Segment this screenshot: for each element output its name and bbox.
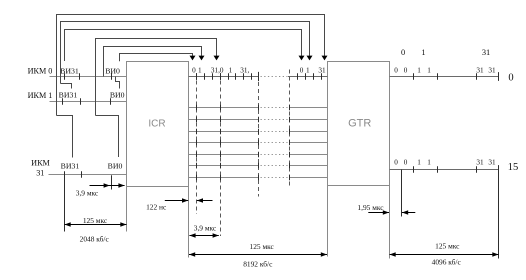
svg-text:125 мкс: 125 мкс [83,216,108,225]
node time slot ticks on PCM 1 [62,98,64,104]
wire ICR right edge extension [188,187,190,258]
wire dim bound half slot output [401,170,403,217]
svg-text:ВИ31: ВИ31 [61,162,80,171]
svg-text:31: 31 [476,159,484,167]
svg-text:2048 кб/с: 2048 кб/с [80,235,110,244]
wire rail D from PCM31 VI0 [96,39,217,116]
wire dashed frame boundary 3 [258,82,260,197]
svg-text:122 нс: 122 нс [146,202,167,211]
svg-text:1: 1 [306,66,310,74]
wire 8192 frame axis right part [288,76,328,78]
svg-text:ИКМ 1: ИКМ 1 [28,91,53,100]
svg-text:ВИ0: ВИ0 [105,67,120,76]
svg-text:31: 31 [476,66,484,74]
svg-text:GTR: GTR [348,117,371,129]
svg-text:1: 1 [427,66,431,74]
svg-text:4096 кб/с: 4096 кб/с [432,258,462,267]
svg-text:3,9 мкс: 3,9 мкс [194,223,217,232]
svg-text:0: 0 [508,73,513,84]
wire rail A jog down to PCM31 VI31 [57,116,73,158]
wire interchange line 1 [189,107,259,109]
svg-text:15: 15 [508,162,519,173]
block GTR [328,62,390,186]
wire GTR output row 15 [390,169,499,171]
svg-text:ICR: ICR [148,118,165,129]
wire rail B from PCM1 VI31 [61,22,310,84]
svg-text:31,: 31, [240,66,249,74]
node time slot tick on PCM 31 [81,171,83,177]
svg-text:1: 1 [427,159,431,167]
wire interchange line 4 [189,142,259,144]
svg-text:0: 0 [401,48,405,57]
svg-text:31: 31 [318,66,326,74]
svg-text:ВИ0: ВИ0 [108,162,123,171]
block ICR [127,62,189,187]
svg-text:0: 0 [394,159,398,167]
svg-text:8192 кб/с: 8192 кб/с [243,259,273,268]
wire rail F hook to PCM1 VI0 [116,77,120,89]
svg-text:31: 31 [488,66,496,74]
svg-text:1: 1 [421,48,425,57]
wire interchange line 5 [189,154,259,156]
svg-text:ВИ0: ВИ0 [110,91,125,100]
svg-text:1: 1 [198,66,202,74]
svg-text:1: 1 [229,66,233,74]
wire GTR output row 0 [390,76,499,78]
svg-text:0: 0 [300,66,304,74]
wire PCM stream 0 line [50,76,127,78]
dimension 125 us 8192 [189,254,327,256]
wire rail A from PCM31 VI31 [57,15,325,116]
wire dim bound right 125us output [498,170,500,259]
svg-text:125 мкс: 125 мкс [435,242,460,251]
svg-text:ВИ31: ВИ31 [60,67,79,76]
node VI0 tick PCM31 extended [111,175,113,189]
wire interchange line 2 [189,119,259,121]
wire interchange line 6 [189,165,259,167]
svg-text:0: 0 [394,66,398,74]
dimension 125 us 4096 [390,254,499,256]
svg-text:125 мкс: 125 мкс [250,242,275,251]
svg-text:1: 1 [417,66,421,74]
svg-text:1: 1 [417,159,421,167]
svg-text:ИКМ: ИКМ [31,159,50,168]
node ticks on 8192 frame axis right [297,73,299,79]
svg-text:31: 31 [488,159,496,167]
svg-text:31,0: 31,0 [211,66,224,74]
dimension 125 us PCM frame [65,224,127,226]
wire 8192 frame axis left part [189,76,259,78]
dimension 122 ns [165,200,188,202]
wire GTR left edge extension [327,186,329,257]
svg-text:3,9 мкс: 3,9 мкс [76,188,99,197]
svg-text:31: 31 [36,168,44,177]
dimension 3,9 us middle [189,235,218,237]
wire dashed frame boundary 4 [289,70,291,186]
wire dashed frame boundary 1 [196,81,198,215]
dimension 1,95 us [368,212,389,214]
svg-text:ВИ31: ВИ31 [59,91,78,100]
wire interchange line 3 [189,131,259,133]
wire dim bound left 125us [64,171,66,231]
svg-text:0: 0 [404,66,408,74]
wire rail E from PCM0 VI0 [104,47,202,77]
wire interchange line 7 [189,177,259,179]
svg-text:0: 0 [404,159,408,167]
wire rail C from PCM0 VI31 [65,30,302,62]
wire GTR right edge extension [389,186,391,259]
wire PCM stream 1 line [50,101,127,103]
svg-text:31: 31 [482,48,490,57]
dimension 3,9 us PCM31 slot [90,185,125,187]
node ticks on 8192 frame axis [196,73,198,79]
node time slot ticks on PCM 0 [64,73,66,79]
wire rail B hook to PCM1 VI31 [61,84,72,89]
wire PCM stream 31 line [49,174,127,176]
wire ICR left edge extension [126,187,128,232]
wire rail D jog down to PCM31 VI0 [96,116,119,158]
svg-text:1,95 мкс: 1,95 мкс [357,203,384,212]
wire rail F from PCM1 VI0 [120,54,193,62]
svg-text:0: 0 [192,66,196,74]
svg-text:ИКМ 0: ИКМ 0 [28,67,53,76]
wire 8192 frame axis dotted gap [261,76,288,78]
wire dashed frame boundary 2 [220,81,222,237]
